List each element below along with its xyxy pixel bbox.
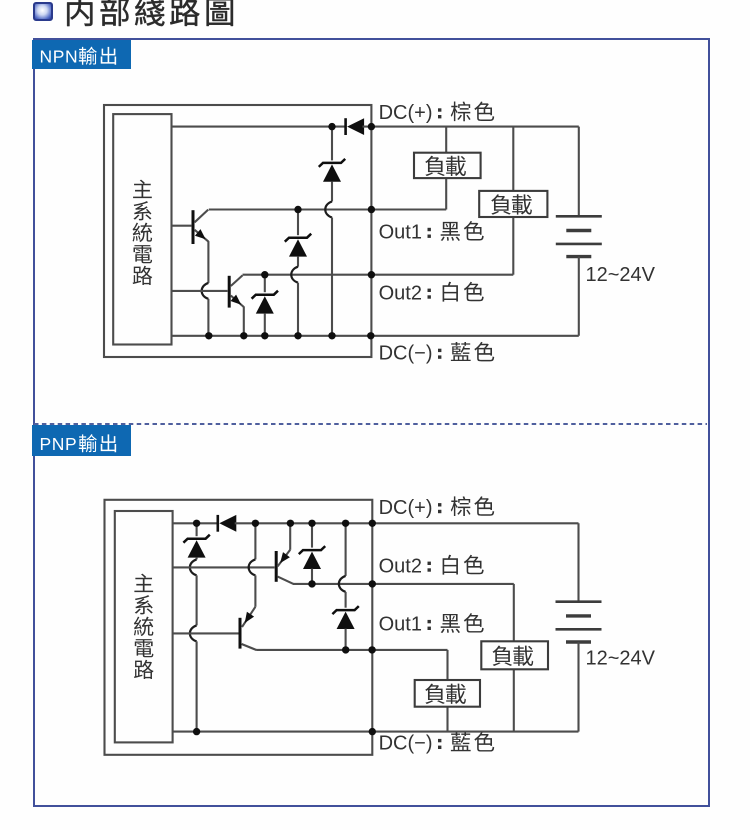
svg-text:Out2: Out2 bbox=[379, 282, 422, 304]
svg-text:12~24V: 12~24V bbox=[586, 648, 656, 670]
svg-text:Out1: Out1 bbox=[379, 222, 422, 244]
svg-text:DC(+): DC(+) bbox=[379, 102, 433, 124]
svg-text:DC(+): DC(+) bbox=[379, 497, 433, 519]
svg-text:12~24V: 12~24V bbox=[586, 264, 656, 286]
svg-text:Out1: Out1 bbox=[379, 614, 422, 636]
svg-text:NPN: NPN bbox=[40, 46, 79, 66]
svg-text:DC(−): DC(−) bbox=[379, 343, 433, 365]
svg-text:Out2: Out2 bbox=[379, 555, 422, 577]
svg-text:DC(−): DC(−) bbox=[379, 733, 433, 755]
svg-text:PNP: PNP bbox=[40, 434, 78, 454]
